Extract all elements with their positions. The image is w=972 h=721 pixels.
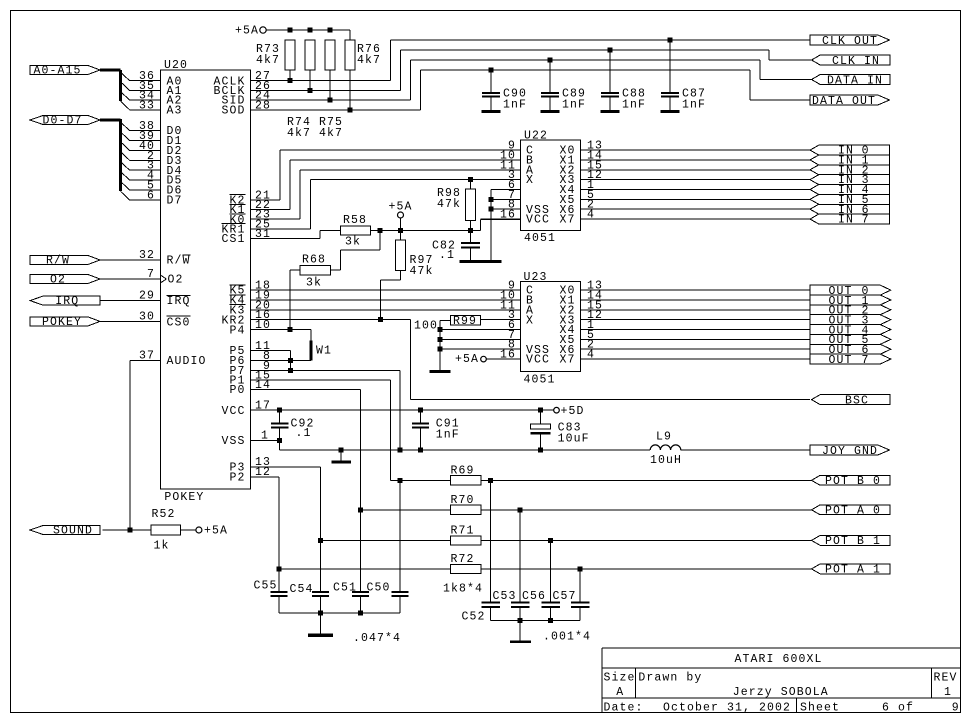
svg-text:4051: 4051 [524,232,556,245]
svg-text:X7: X7 [559,214,575,227]
svg-text:VCC: VCC [526,214,550,227]
svg-text:OUT: OUT [829,354,853,367]
svg-text:R72: R72 [451,553,475,566]
svg-text:U22: U22 [524,130,548,143]
svg-text:6 of: 6 of [882,701,914,714]
svg-text:POKEY: POKEY [42,316,82,329]
svg-text:IRQ: IRQ [55,295,79,308]
svg-text:1nF: 1nF [622,99,646,112]
svg-text:4k7: 4k7 [357,54,381,67]
svg-text:R70: R70 [451,494,475,507]
svg-text:Date:: Date: [604,701,644,714]
svg-text:POT B 1: POT B 1 [825,535,881,548]
svg-text:D0-D7: D0-D7 [43,115,83,128]
svg-text:4: 4 [587,209,595,222]
svg-text:P0: P0 [229,384,245,397]
svg-text:ATARI 600XL: ATARI 600XL [735,653,823,666]
svg-text:A3: A3 [167,104,183,117]
svg-text:C52: C52 [462,611,486,624]
svg-text:.001*4: .001*4 [543,631,591,644]
svg-text:Sheet: Sheet [800,701,840,714]
svg-text:X: X [526,314,534,327]
svg-text:C56: C56 [522,590,546,603]
svg-text:1k8*4: 1k8*4 [443,583,483,596]
svg-text:R/W: R/W [167,255,191,268]
svg-text:Drawn by: Drawn by [638,672,702,685]
svg-text:R69: R69 [451,464,475,477]
svg-text:BSC: BSC [845,394,869,407]
svg-text:+5D: +5D [561,405,585,418]
svg-text:32: 32 [139,249,155,262]
svg-text:O2: O2 [50,274,66,287]
svg-text:JOY GND: JOY GND [822,445,878,458]
svg-text:U23: U23 [524,271,548,284]
svg-text:1: 1 [261,430,269,443]
svg-text:VCC: VCC [526,354,550,367]
svg-text:3k: 3k [345,236,361,249]
svg-text:1: 1 [944,686,952,699]
svg-text:CS1: CS1 [221,233,245,246]
svg-text:1nF: 1nF [436,429,460,442]
svg-text:16: 16 [500,209,516,222]
svg-text:REV: REV [934,672,958,685]
svg-text:29: 29 [139,290,155,303]
svg-text:POT A 0: POT A 0 [825,505,881,518]
svg-text:4051: 4051 [524,374,556,387]
svg-text:1nF: 1nF [503,99,527,112]
svg-text:10uF: 10uF [558,433,590,446]
svg-text:R71: R71 [451,524,475,537]
svg-text:VCC: VCC [221,405,245,418]
svg-text:.1: .1 [439,249,455,262]
svg-text:16: 16 [500,349,516,362]
svg-text:47k: 47k [410,265,434,278]
svg-text:12: 12 [255,466,271,479]
svg-text:33: 33 [139,99,155,112]
svg-text:X7: X7 [559,354,575,367]
svg-text:C51: C51 [333,582,357,595]
svg-text:100: 100 [414,319,438,332]
svg-text:3k: 3k [306,277,322,290]
svg-text:CLK IN: CLK IN [832,55,880,68]
svg-text:C50: C50 [367,582,391,595]
svg-text:IRQ: IRQ [167,295,191,308]
svg-text:CLK OUT: CLK OUT [822,35,878,48]
svg-text:R52: R52 [152,508,176,521]
svg-text:7: 7 [862,354,870,367]
svg-text:.047*4: .047*4 [353,632,401,645]
svg-text:+5A: +5A [235,25,259,38]
svg-text:October 31, 2002: October 31, 2002 [663,701,791,714]
svg-text:4k7: 4k7 [256,54,280,67]
svg-text:P2: P2 [229,471,245,484]
svg-text:U20: U20 [164,59,188,72]
svg-text:1nF: 1nF [682,99,706,112]
svg-text:+5A: +5A [455,353,479,366]
svg-text:IN: IN [838,214,854,227]
svg-text:17: 17 [255,400,271,413]
svg-text:DATA OUT: DATA OUT [812,95,876,108]
svg-text:L9: L9 [656,431,672,444]
svg-text:VSS: VSS [221,435,245,448]
svg-text:C57: C57 [553,590,577,603]
svg-text:CS0: CS0 [167,316,191,329]
svg-text:7: 7 [147,268,155,281]
svg-text:31: 31 [255,228,271,241]
svg-text:+5A: +5A [204,525,228,538]
svg-text:SOUND: SOUND [53,525,93,538]
svg-text:POKEY: POKEY [164,491,204,504]
svg-text:D7: D7 [167,195,183,208]
svg-text:P4: P4 [229,324,245,337]
svg-text:37: 37 [139,350,155,363]
svg-text:R99: R99 [453,315,477,328]
svg-text:A: A [616,686,624,699]
svg-text:POT B 0: POT B 0 [825,475,881,488]
svg-text:R68: R68 [302,254,326,267]
svg-text:AUDIO: AUDIO [167,355,207,368]
svg-text:28: 28 [255,99,271,112]
svg-text:SOD: SOD [221,104,245,117]
svg-text:10: 10 [255,319,271,332]
svg-text:4: 4 [587,349,595,362]
svg-text:Size: Size [604,672,636,685]
svg-text:A0-A15: A0-A15 [34,65,82,78]
svg-text:C53: C53 [493,590,517,603]
svg-text:9: 9 [952,701,960,714]
svg-text:X: X [526,174,534,187]
svg-text:47k: 47k [437,198,461,211]
svg-text:DATA IN: DATA IN [827,74,883,87]
svg-text:+5A: +5A [389,201,413,214]
svg-text:R/W: R/W [46,255,70,268]
svg-text:14: 14 [255,379,271,392]
svg-text:O2: O2 [168,274,184,287]
svg-text:4k7 4k7: 4k7 4k7 [287,127,343,140]
svg-text:POT A 1: POT A 1 [825,564,881,577]
svg-text:30: 30 [139,310,155,323]
svg-text:1k: 1k [154,540,170,553]
svg-text:W1: W1 [316,345,332,358]
svg-text:7: 7 [862,214,870,227]
svg-text:Jerzy SOBOLA: Jerzy SOBOLA [733,686,829,699]
svg-text:C55: C55 [254,580,278,593]
svg-text:6: 6 [147,189,155,202]
svg-text:1nF: 1nF [562,99,586,112]
svg-text:R58: R58 [343,214,367,227]
svg-text:10uH: 10uH [650,454,682,467]
svg-text:.1: .1 [296,427,312,440]
svg-text:C54: C54 [290,583,314,596]
